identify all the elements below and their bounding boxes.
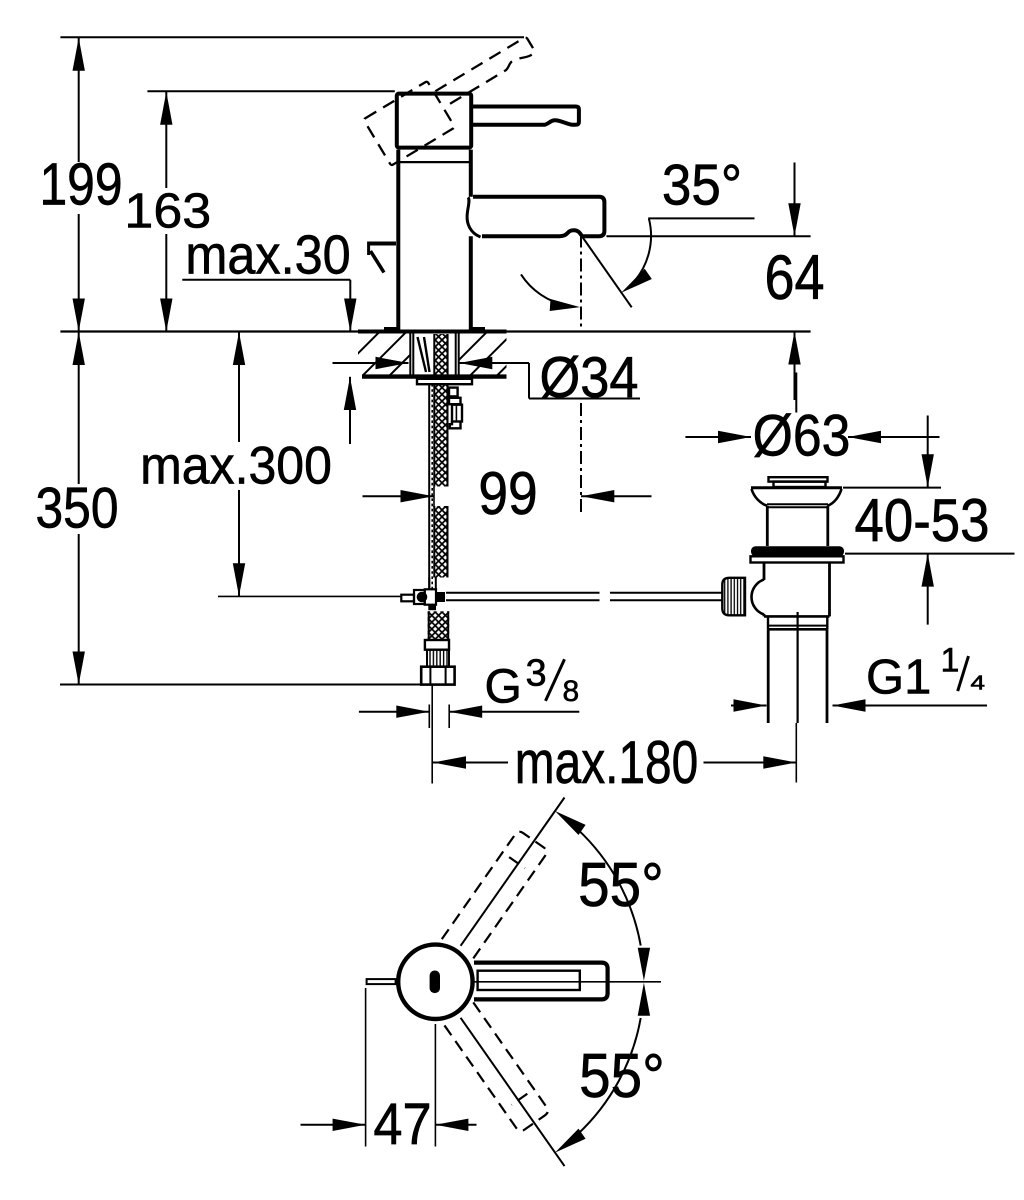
svg-text:3: 3 <box>526 652 547 694</box>
svg-text:max.180: max.180 <box>515 729 698 797</box>
svg-text:max.30: max.30 <box>185 225 350 286</box>
svg-text:35°: 35° <box>662 153 742 217</box>
svg-text:64: 64 <box>764 243 824 313</box>
svg-text:max.300: max.300 <box>140 435 332 495</box>
svg-text:55°: 55° <box>578 849 664 919</box>
svg-text:350: 350 <box>35 476 118 540</box>
svg-text:47: 47 <box>373 1091 431 1157</box>
svg-text:8: 8 <box>563 675 580 708</box>
svg-text:199: 199 <box>39 150 122 217</box>
svg-text:G1: G1 <box>866 651 931 705</box>
svg-text:1: 1 <box>941 641 960 679</box>
svg-text:Ø34: Ø34 <box>539 345 638 410</box>
svg-text:G: G <box>485 661 522 714</box>
svg-text:99: 99 <box>478 461 537 528</box>
svg-text:55°: 55° <box>579 1040 665 1110</box>
svg-text:4: 4 <box>971 671 986 693</box>
svg-text:40-53: 40-53 <box>854 487 989 554</box>
svg-text:Ø63: Ø63 <box>753 403 851 469</box>
